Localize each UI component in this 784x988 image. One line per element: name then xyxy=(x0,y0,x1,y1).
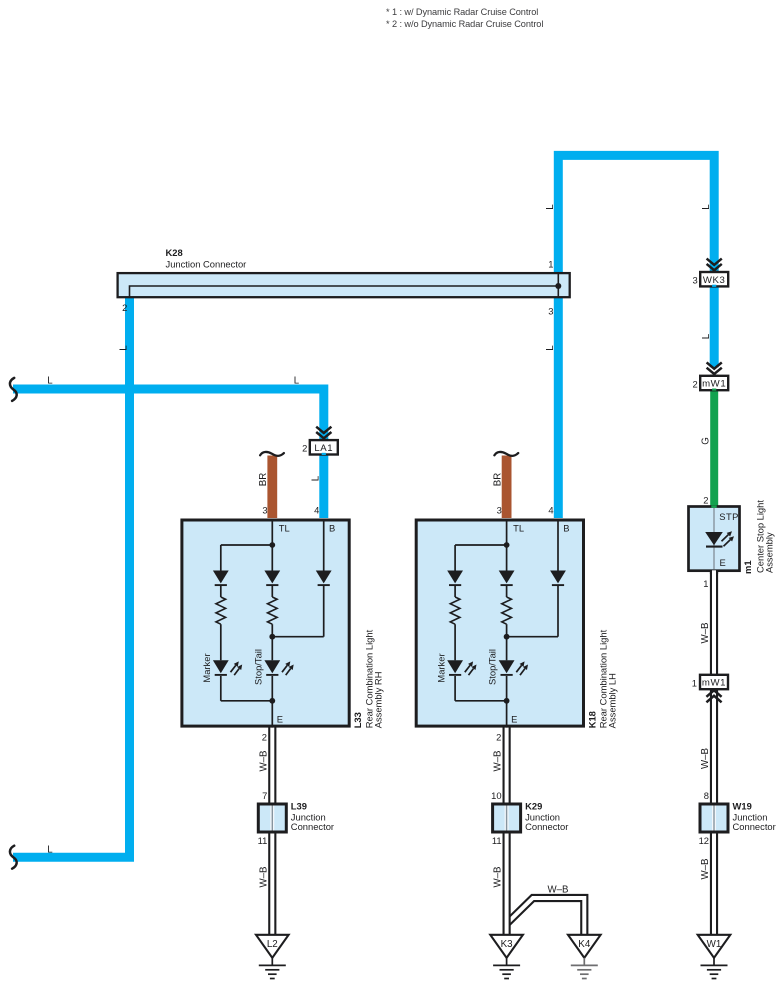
svg-text:BR: BR xyxy=(258,473,269,486)
svg-text:TL: TL xyxy=(279,522,290,533)
svg-text:Assembly: Assembly xyxy=(764,532,775,573)
svg-text:K18: K18 xyxy=(586,711,597,728)
svg-text:K29: K29 xyxy=(525,801,542,812)
svg-text:STP: STP xyxy=(719,511,739,522)
svg-text:2: 2 xyxy=(692,378,697,389)
svg-text:Connector: Connector xyxy=(291,821,334,832)
svg-text:Marker: Marker xyxy=(201,653,212,682)
svg-text:1: 1 xyxy=(548,259,553,270)
svg-text:Assembly RH: Assembly RH xyxy=(372,672,383,729)
svg-text:m1: m1 xyxy=(742,560,753,574)
svg-text:L: L xyxy=(47,844,53,855)
svg-text:Marker: Marker xyxy=(436,653,447,682)
svg-text:Stop/Tail: Stop/Tail xyxy=(487,649,498,685)
svg-text:WK3: WK3 xyxy=(703,275,726,286)
svg-text:L: L xyxy=(47,376,53,387)
svg-text:E: E xyxy=(277,714,283,725)
svg-text:1: 1 xyxy=(703,578,708,589)
svg-text:L: L xyxy=(701,204,712,210)
svg-text:L33: L33 xyxy=(352,712,363,728)
svg-text:L39: L39 xyxy=(291,801,307,812)
svg-text:W–B: W–B xyxy=(493,867,504,888)
svg-text:W–B: W–B xyxy=(700,859,711,880)
svg-text:4: 4 xyxy=(548,504,553,515)
svg-text:W–B: W–B xyxy=(700,748,711,769)
svg-text:2: 2 xyxy=(703,495,708,506)
svg-text:10: 10 xyxy=(491,790,501,801)
svg-text:1: 1 xyxy=(692,677,697,688)
svg-text:W–B: W–B xyxy=(700,623,711,644)
svg-text:7: 7 xyxy=(262,790,267,801)
svg-text:W–B: W–B xyxy=(548,884,569,895)
svg-text:B: B xyxy=(563,522,569,533)
svg-text:12: 12 xyxy=(699,835,709,846)
svg-text:BR: BR xyxy=(492,473,503,486)
svg-text:3: 3 xyxy=(548,306,553,317)
svg-text:L: L xyxy=(701,333,712,339)
svg-text:2: 2 xyxy=(302,443,307,454)
svg-text:W–B: W–B xyxy=(493,751,504,772)
svg-text:2: 2 xyxy=(262,732,267,743)
svg-text:E: E xyxy=(511,714,517,725)
svg-text:W19: W19 xyxy=(733,801,752,812)
svg-text:L2: L2 xyxy=(267,939,278,950)
svg-text:2: 2 xyxy=(496,732,501,743)
svg-text:K3: K3 xyxy=(501,939,514,950)
svg-text:* 2 : w/o Dynamic Radar Cruise: * 2 : w/o Dynamic Radar Cruise Control xyxy=(386,19,543,29)
svg-text:LA1: LA1 xyxy=(314,443,333,454)
svg-text:E: E xyxy=(720,557,726,568)
svg-text:G: G xyxy=(701,437,712,445)
svg-text:2: 2 xyxy=(122,302,127,313)
svg-text:mW1: mW1 xyxy=(702,379,726,390)
svg-text:3: 3 xyxy=(262,504,267,515)
svg-text:11: 11 xyxy=(492,835,502,846)
svg-text:Stop/Tail: Stop/Tail xyxy=(252,649,263,685)
svg-text:* 1 : w/ Dynamic Radar Cruise: * 1 : w/ Dynamic Radar Cruise Control xyxy=(386,7,538,17)
svg-text:K4: K4 xyxy=(578,939,591,950)
svg-text:TL: TL xyxy=(513,522,524,533)
svg-text:L: L xyxy=(294,376,300,387)
svg-text:L: L xyxy=(545,204,556,210)
svg-text:Connector: Connector xyxy=(733,821,776,832)
svg-text:W1: W1 xyxy=(707,939,722,950)
svg-text:B: B xyxy=(329,522,335,533)
svg-text:L: L xyxy=(545,345,556,351)
svg-text:3: 3 xyxy=(497,504,502,515)
svg-text:W–B: W–B xyxy=(258,867,269,888)
svg-text:mW1: mW1 xyxy=(702,678,726,689)
svg-text:3: 3 xyxy=(692,275,697,286)
svg-text:4: 4 xyxy=(314,504,319,515)
svg-text:Connector: Connector xyxy=(525,821,568,832)
svg-text:L: L xyxy=(118,345,129,351)
svg-text:L: L xyxy=(311,475,322,481)
svg-text:11: 11 xyxy=(258,835,268,846)
svg-text:Assembly LH: Assembly LH xyxy=(607,673,618,728)
svg-text:K28: K28 xyxy=(166,247,183,258)
svg-text:W–B: W–B xyxy=(258,751,269,772)
svg-text:8: 8 xyxy=(704,790,709,801)
svg-text:Junction Connector: Junction Connector xyxy=(166,259,247,270)
